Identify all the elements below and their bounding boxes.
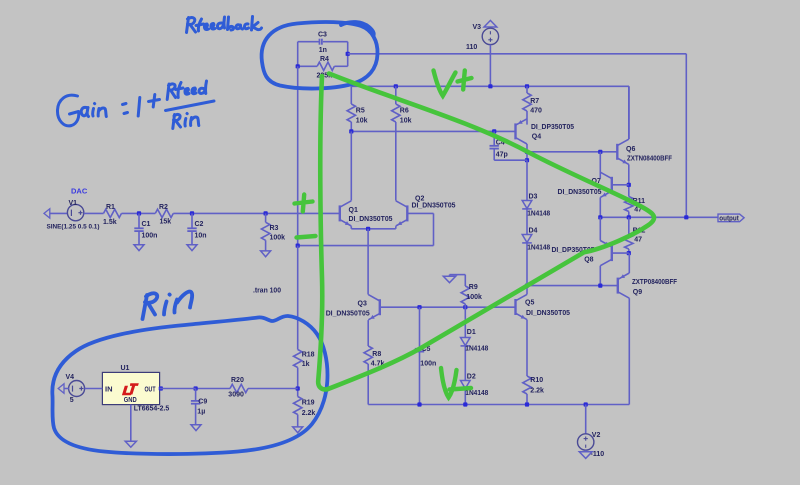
- voltage source V3: [482, 28, 498, 44]
- transistor Q2: [406, 205, 408, 221]
- resistor R1: [104, 209, 122, 217]
- svg-text:DI_DN350T05: DI_DN350T05: [349, 216, 393, 223]
- svg-text:U1: U1: [121, 365, 130, 372]
- ground: [261, 251, 271, 257]
- svg-text:Q6: Q6: [626, 146, 635, 153]
- wire emitters: [350, 226, 352, 229]
- diode D2: [461, 381, 471, 389]
- svg-text:C2: C2: [195, 221, 204, 228]
- svg-text:R2: R2: [159, 204, 168, 211]
- capacitor C4: [493, 131, 495, 145]
- wire first-stage rail: [351, 130, 515, 132]
- resistor R6: [395, 86, 397, 104]
- resistor R8: [367, 320, 369, 346]
- wire Q9 emitter: [628, 253, 630, 273]
- output flag: [718, 214, 744, 222]
- svg-text:SINE(1.25 0.5 0.1): SINE(1.25 0.5 0.1): [47, 223, 100, 230]
- annotation: green op-amp triangle: [318, 76, 327, 389]
- resistor R7: [526, 86, 528, 93]
- wire: [50, 212, 68, 214]
- transistor Q6: [616, 144, 618, 160]
- node: [296, 64, 300, 68]
- svg-text:1µ: 1µ: [197, 409, 205, 416]
- regulator U1: [102, 372, 159, 404]
- ground: [585, 450, 587, 452]
- resistor R10: [526, 320, 528, 376]
- svg-text:ZXTP08400BFF: ZXTP08400BFF: [632, 279, 678, 286]
- svg-text:1N4148: 1N4148: [465, 345, 488, 352]
- svg-text:100n: 100n: [420, 361, 436, 368]
- wire: [297, 42, 299, 67]
- net port arrow (V1 minus): [44, 209, 50, 218]
- svg-text:1N4148: 1N4148: [527, 244, 550, 251]
- ground: [134, 245, 144, 251]
- svg-text:Q4: Q4: [532, 134, 541, 141]
- svg-text:V3: V3: [473, 24, 482, 31]
- ground: [187, 245, 197, 251]
- svg-text:3090: 3090: [228, 391, 244, 398]
- wire: [64, 388, 69, 390]
- svg-text:R4: R4: [320, 56, 329, 63]
- wire feedback right: [685, 54, 687, 218]
- svg-text:R18: R18: [302, 351, 315, 358]
- svg-text:C1: C1: [142, 221, 151, 228]
- svg-text:R20: R20: [231, 377, 244, 384]
- wire inverting column: [297, 66, 299, 245]
- resistor R5: [350, 86, 352, 104]
- wire V+ rail: [351, 85, 629, 87]
- svg-text:DI_DN350T05: DI_DN350T05: [558, 189, 602, 196]
- svg-text:D3: D3: [529, 193, 538, 200]
- svg-text:5: 5: [70, 397, 74, 404]
- diode D3: [526, 160, 528, 200]
- svg-text:Q1: Q1: [349, 207, 358, 214]
- svg-text:1N4148: 1N4148: [527, 210, 550, 217]
- annotation: green V-: [441, 368, 457, 398]
- resistor R18: [294, 350, 302, 368]
- svg-text:V2: V2: [592, 432, 601, 439]
- svg-text:1k: 1k: [302, 361, 310, 368]
- wire Q6 emitter: [628, 164, 630, 196]
- wire feedback top: [348, 53, 687, 55]
- svg-text:470: 470: [530, 108, 542, 115]
- svg-text:47: 47: [634, 237, 642, 244]
- svg-text:DAC: DAC: [71, 187, 88, 196]
- node: [190, 211, 194, 215]
- annotation: handwritten gain formula: [57, 81, 214, 129]
- svg-text:Q9: Q9: [633, 289, 642, 296]
- wire Q8 base: [612, 252, 629, 254]
- svg-text:2.2k: 2.2k: [530, 388, 544, 395]
- diode D1: [464, 307, 466, 337]
- svg-text:R6: R6: [400, 107, 409, 114]
- ground: [191, 425, 201, 431]
- ground: [125, 441, 136, 447]
- resistor R4: [298, 65, 318, 67]
- svg-text:R7: R7: [530, 98, 539, 105]
- resistor R9: [464, 275, 466, 286]
- svg-text:1N4148: 1N4148: [465, 390, 488, 397]
- wire: [173, 212, 339, 214]
- wire Q7 collector: [599, 152, 601, 178]
- svg-text:C9: C9: [198, 398, 207, 405]
- svg-text:100k: 100k: [466, 294, 482, 301]
- wire: [489, 45, 491, 87]
- svg-text:GND: GND: [124, 397, 137, 404]
- svg-text:IN: IN: [105, 386, 113, 393]
- svg-text:47p: 47p: [496, 152, 508, 159]
- transistor Q1: [339, 205, 341, 221]
- wire tail: [367, 229, 369, 295]
- wire inverting input: [298, 245, 434, 247]
- resistor R12: [628, 217, 630, 234]
- capacitor C2: [191, 213, 193, 228]
- svg-text:ZXTN08400BFF: ZXTN08400BFF: [627, 156, 673, 163]
- transistor Q7: [611, 177, 613, 193]
- wire node A: [527, 151, 617, 153]
- svg-text:LT6654-2.5: LT6654-2.5: [134, 406, 170, 413]
- resistor R20: [248, 388, 298, 390]
- annotation: green plus input: [295, 195, 313, 212]
- wire Q8 collector: [599, 266, 601, 286]
- wire Q8 emitter: [599, 217, 601, 240]
- capacitor C5: [419, 307, 421, 349]
- svg-text:R8: R8: [372, 351, 381, 358]
- svg-text:C3: C3: [318, 31, 327, 38]
- node (U1 out pin): [159, 386, 163, 390]
- svg-text:D1: D1: [467, 329, 476, 336]
- wire Q7 base: [612, 184, 629, 186]
- annotation: blue circle around C3/R4 (Rfeedback): [262, 22, 378, 89]
- node: [264, 211, 268, 215]
- svg-text:DI_DN350T05: DI_DN350T05: [326, 311, 370, 318]
- node: [296, 386, 300, 390]
- svg-text:1.5k: 1.5k: [103, 219, 117, 226]
- svg-text:D2: D2: [467, 373, 476, 380]
- capacitor C1: [138, 213, 140, 228]
- svg-text:DI_DP350T05: DI_DP350T05: [531, 124, 574, 131]
- wire: [298, 41, 320, 43]
- wire Q9 base / node B: [527, 285, 618, 287]
- svg-text:Q5: Q5: [525, 299, 534, 306]
- capacitor C3: [319, 39, 321, 45]
- wire Q2 base: [407, 212, 433, 214]
- wire U1 gnd: [130, 405, 132, 442]
- wire: [84, 212, 104, 214]
- svg-text:V1: V1: [69, 200, 78, 207]
- node: [137, 211, 141, 215]
- svg-text:100k: 100k: [270, 235, 286, 242]
- wire output: [600, 216, 718, 218]
- svg-text:R19: R19: [302, 400, 315, 407]
- svg-text:110: 110: [466, 44, 477, 51]
- svg-text:V4: V4: [66, 374, 75, 381]
- wire Q4 collector: [526, 144, 528, 160]
- svg-text:Q2: Q2: [415, 195, 424, 202]
- svg-text:OUT: OUT: [145, 386, 157, 393]
- voltage source V1: [67, 204, 83, 220]
- wire: [323, 41, 348, 43]
- svg-text:R3: R3: [270, 225, 279, 232]
- voltage source V2: [585, 405, 587, 434]
- wire Q6 collector: [628, 86, 630, 139]
- svg-text:1n: 1n: [319, 47, 327, 54]
- transistor Q9: [617, 278, 619, 294]
- svg-text:2.2k: 2.2k: [302, 410, 316, 417]
- wire Q9 collector: [628, 298, 630, 404]
- svg-text:DI_DN350T05: DI_DN350T05: [412, 203, 456, 210]
- svg-text:100n: 100n: [142, 233, 158, 240]
- annotation: handwritten Rfeedback: [187, 17, 262, 33]
- wire Q7 emitter: [599, 197, 601, 217]
- wire Q1 collector: [350, 131, 352, 200]
- svg-text:10k: 10k: [356, 117, 368, 124]
- wire: [160, 388, 196, 390]
- wire V- rail: [368, 404, 629, 406]
- voltage source V4: [69, 381, 85, 397]
- transistor Q3: [379, 299, 381, 315]
- wire divider column: [297, 246, 299, 350]
- annotation: handwritten Rin label: [143, 292, 193, 319]
- svg-text:R10: R10: [530, 377, 543, 384]
- svg-text:10k: 10k: [400, 117, 412, 124]
- svg-text:DI_DN350T05: DI_DN350T05: [526, 310, 570, 317]
- svg-text:R5: R5: [356, 107, 365, 114]
- resistor R3: [265, 213, 267, 222]
- svg-text:R9: R9: [469, 284, 478, 291]
- node: [346, 52, 350, 56]
- resistor R19: [294, 397, 302, 415]
- transistor Q5: [514, 299, 516, 315]
- wire Q3 base row: [380, 306, 516, 308]
- svg-text:.tran 100: .tran 100: [253, 287, 281, 294]
- ground (R9): [450, 274, 466, 276]
- ground flipped: [484, 20, 497, 27]
- svg-text:Q3: Q3: [358, 301, 367, 308]
- annotation: green minus input: [297, 236, 316, 238]
- capacitor C9: [195, 389, 197, 401]
- svg-text:R1: R1: [106, 204, 115, 211]
- resistor R2: [155, 209, 173, 217]
- net port arrow (V4): [58, 384, 64, 393]
- diode D4: [522, 235, 532, 243]
- wire: [347, 42, 349, 67]
- LT logo: [122, 386, 132, 396]
- svg-text:output: output: [719, 216, 739, 223]
- wire: [122, 212, 156, 214]
- wire Q5 collector: [526, 286, 528, 295]
- annotation: blue blob around U1 (Rin region): [52, 316, 327, 454]
- svg-text:Q8: Q8: [584, 257, 593, 264]
- svg-text:D4: D4: [529, 227, 538, 234]
- ground: [293, 427, 303, 433]
- node: [194, 386, 198, 390]
- annotation: green V+: [434, 71, 456, 96]
- transistor Q8: [611, 245, 613, 261]
- svg-text:15k: 15k: [160, 219, 172, 226]
- transistor Q4: [514, 123, 516, 139]
- resistor R11: [625, 197, 633, 212]
- svg-text:10n: 10n: [195, 233, 207, 240]
